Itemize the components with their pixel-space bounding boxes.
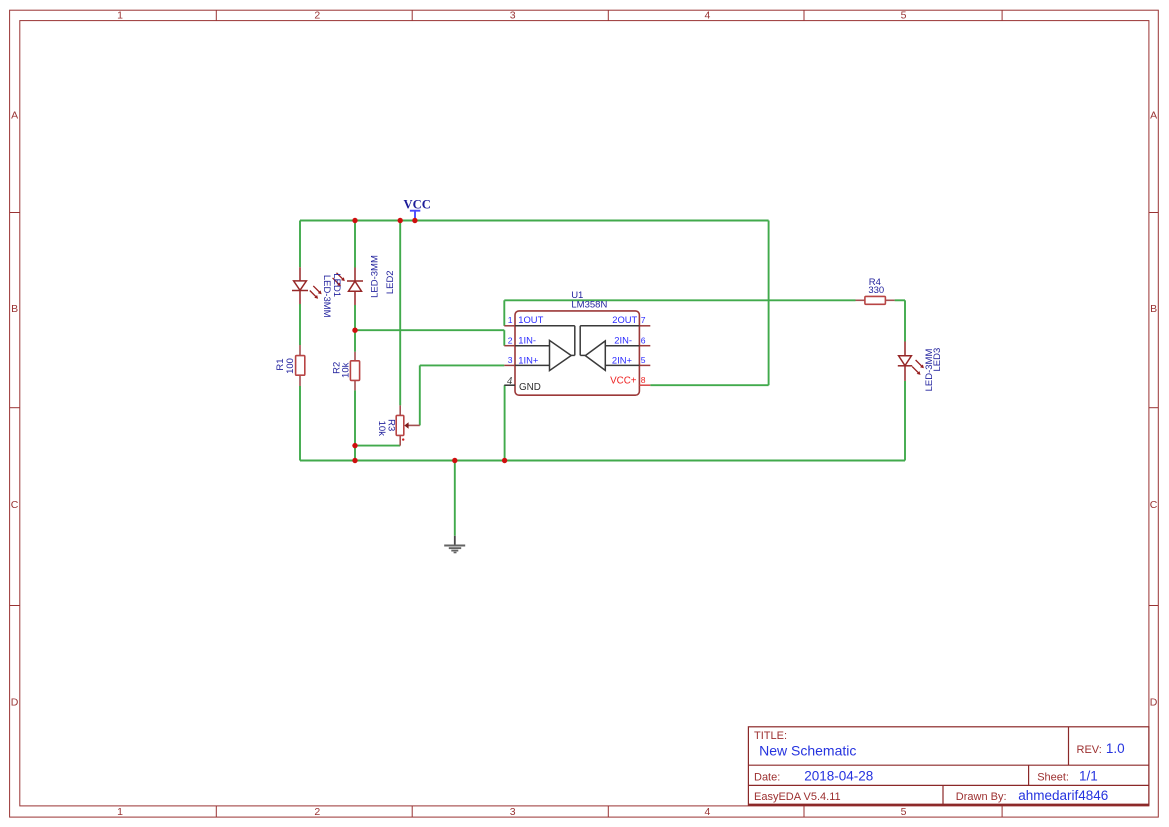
svg-text:2IN-: 2IN- [614, 335, 632, 346]
svg-text:LM358N: LM358N [571, 300, 607, 311]
svg-text:3: 3 [510, 806, 516, 818]
svg-text:C: C [1150, 499, 1158, 511]
svg-text:5: 5 [901, 9, 907, 21]
svg-text:LED-3MM: LED-3MM [370, 255, 381, 298]
svg-text:LED-3MM: LED-3MM [321, 275, 332, 318]
svg-text:REV:: REV: [1077, 744, 1102, 756]
svg-text:2OUT: 2OUT [612, 314, 637, 325]
svg-text:5: 5 [901, 806, 907, 818]
svg-text:1: 1 [117, 806, 123, 818]
svg-text:New Schematic: New Schematic [759, 743, 856, 759]
svg-text:D: D [11, 697, 19, 709]
svg-text:TITLE:: TITLE: [754, 730, 787, 742]
svg-text:LED-3MM: LED-3MM [924, 349, 935, 392]
svg-text:D: D [1150, 697, 1158, 709]
svg-text:1.0: 1.0 [1106, 741, 1125, 756]
svg-text:A: A [11, 109, 18, 121]
svg-text:Date:: Date: [754, 771, 780, 783]
svg-text:6: 6 [641, 335, 646, 345]
svg-text:LED2: LED2 [385, 270, 396, 294]
svg-text:A: A [1150, 109, 1157, 121]
svg-text:5: 5 [641, 355, 646, 365]
svg-text:4: 4 [507, 376, 513, 387]
svg-text:B: B [1150, 303, 1157, 315]
svg-text:100: 100 [285, 358, 296, 374]
svg-text:2: 2 [314, 806, 320, 818]
svg-text:B: B [11, 303, 18, 315]
svg-text:C: C [11, 499, 19, 511]
svg-text:1: 1 [508, 315, 513, 325]
svg-text:2018-04-28: 2018-04-28 [804, 768, 873, 783]
svg-text:Sheet:: Sheet: [1037, 771, 1069, 783]
svg-text:3: 3 [510, 9, 516, 21]
svg-text:1OUT: 1OUT [518, 314, 543, 325]
svg-text:VCC: VCC [404, 197, 431, 211]
svg-text:8: 8 [641, 375, 646, 385]
svg-text:4: 4 [704, 806, 710, 818]
svg-text:1IN+: 1IN+ [518, 354, 539, 365]
svg-text:3: 3 [508, 355, 513, 365]
svg-text:Drawn By:: Drawn By: [956, 791, 1007, 803]
svg-text:10k: 10k [376, 421, 387, 437]
svg-text:1/1: 1/1 [1079, 768, 1098, 783]
svg-text:GND: GND [519, 382, 541, 393]
svg-text:EasyEDA V5.4.11: EasyEDA V5.4.11 [754, 791, 841, 803]
svg-text:1: 1 [117, 9, 123, 21]
svg-text:10k: 10k [340, 362, 351, 378]
svg-text:2: 2 [508, 335, 513, 345]
svg-text:2: 2 [314, 9, 320, 21]
svg-text:ahmedarif4846: ahmedarif4846 [1018, 788, 1108, 803]
svg-text:330: 330 [868, 285, 884, 296]
svg-text:7: 7 [641, 315, 646, 325]
svg-text:1IN-: 1IN- [518, 335, 536, 346]
svg-text:VCC+: VCC+ [610, 375, 637, 386]
svg-text:2IN+: 2IN+ [612, 354, 633, 365]
svg-text:4: 4 [704, 9, 710, 21]
